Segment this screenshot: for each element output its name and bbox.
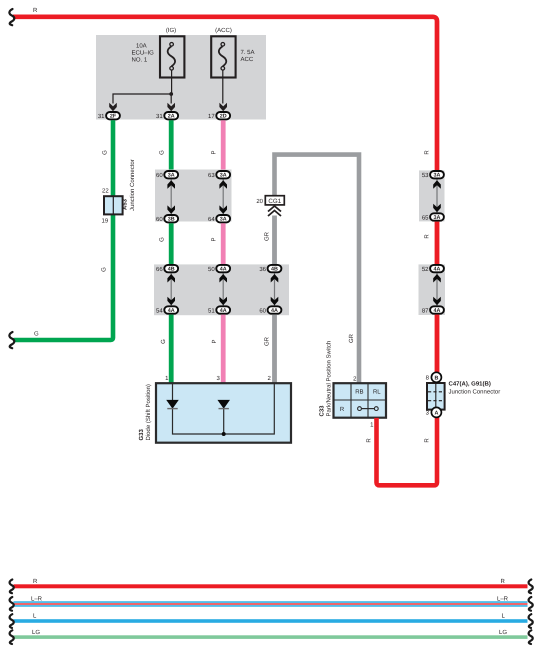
park/neutral position switch C33 box	[334, 383, 387, 418]
svg-text:60: 60	[156, 172, 163, 179]
label L-R bottom left	[31, 595, 43, 602]
svg-text:3A: 3A	[434, 173, 441, 179]
label R (below switch)	[366, 438, 373, 443]
wire P from 3A to connector 4A	[221, 223, 226, 264]
svg-text:CG1: CG1	[268, 198, 281, 205]
svg-text:P: P	[211, 150, 218, 154]
svg-text:G33: G33	[138, 428, 145, 440]
wire R main feed: top horizontal from left break to right vertical	[13, 17, 437, 171]
break symbol left end of wire G	[9, 332, 14, 348]
wire LG bottom bus	[14, 635, 528, 639]
svg-text:LG: LG	[32, 629, 40, 636]
svg-text:R: R	[366, 438, 373, 443]
diode G33 (Shift Position) box	[156, 383, 291, 443]
svg-text:(ACC): (ACC)	[215, 27, 232, 34]
svg-text:GR: GR	[348, 333, 355, 343]
fuse 10A ECU-IG NO.1 rectangle	[160, 36, 184, 77]
label 19 (A53 lower pin)	[102, 218, 109, 225]
svg-text:4A: 4A	[220, 308, 227, 314]
svg-text:31: 31	[98, 113, 105, 120]
junction pin A circle	[426, 407, 442, 417]
svg-text:60: 60	[259, 307, 266, 314]
wire R bottom bus	[14, 584, 528, 588]
label R on top wire	[33, 7, 38, 14]
svg-text:4B: 4B	[168, 267, 175, 273]
label P (between 2D and 3A)	[211, 150, 218, 154]
label L bottom left	[33, 613, 37, 620]
in-line connector 53 (3A) to 65 (3A) red	[422, 171, 444, 221]
svg-text:4A: 4A	[434, 267, 441, 273]
svg-text:L: L	[502, 613, 506, 620]
break symbol right of wire L-R	[529, 597, 533, 611]
svg-text:C33: C33	[318, 405, 325, 417]
svg-text:54: 54	[156, 307, 163, 314]
wire GR from CG1 chevron down to connector 4B	[272, 216, 277, 265]
label LG bottom left	[32, 629, 40, 636]
svg-text:19: 19	[102, 218, 109, 225]
svg-text:64: 64	[208, 216, 215, 223]
wire G from 4A to diode G33 pin 1	[169, 315, 174, 384]
svg-text:3A: 3A	[220, 173, 227, 179]
CG1 shield chevrons	[268, 206, 281, 216]
label 22 (A53 upper pin)	[102, 188, 109, 195]
svg-text:G: G	[34, 331, 39, 338]
svg-text:66: 66	[156, 266, 163, 273]
svg-text:(IG): (IG)	[166, 27, 176, 34]
svg-text:3B: 3B	[168, 217, 175, 223]
wire GR from 4A to diode G33 pin 2	[272, 315, 277, 384]
wire R from C33 pin 1 down, across, up to junction A	[377, 418, 438, 486]
label GR (right leg, above switch)	[348, 333, 355, 343]
svg-text:R: R	[501, 578, 506, 585]
label A53 Junction Connector	[122, 159, 137, 211]
svg-text:Junction Connector: Junction Connector	[449, 389, 501, 396]
in-line connector 36 (4B) to 60 (4A) gray	[259, 265, 281, 314]
label (IG)	[166, 27, 176, 34]
wire G from pin 2A to connector 3A	[169, 120, 174, 171]
svg-text:R: R	[33, 578, 38, 585]
in-line connector 63 (3A) to 64 (3A) pink	[208, 171, 230, 223]
break symbol right of wire R	[529, 580, 533, 594]
svg-text:B: B	[434, 375, 438, 381]
label C47(A), G91(B) Junction Connector	[449, 381, 501, 396]
in-line connector 60 (3A) to 60 (3B) green	[156, 171, 178, 223]
G33 pin 1 label	[165, 375, 169, 382]
label G33 Diode (Shift Position)	[138, 384, 152, 440]
break symbol left of wire LG	[10, 630, 14, 644]
wire L-R bottom bus	[14, 601, 528, 606]
fuse block gray box	[96, 35, 266, 120]
connector pin 31 (2A)	[156, 112, 178, 120]
in-line connector 50 (4A) to 51 (4A) pink	[208, 265, 230, 314]
wire GR overhead run from CG1 column to park/neutral switch column	[275, 155, 360, 383]
svg-text:G: G	[101, 150, 108, 155]
svg-text:2F: 2F	[110, 114, 117, 120]
wire L bottom bus	[14, 619, 528, 623]
in-line connector gray box (4B/4A wide)	[154, 264, 289, 315]
label 7. 5A ACC	[241, 49, 255, 63]
svg-text:R: R	[424, 438, 431, 443]
svg-text:3A: 3A	[168, 173, 175, 179]
label L-R bottom right	[497, 595, 509, 602]
label LG bottom right	[499, 629, 507, 636]
label G (above G33)	[160, 339, 167, 344]
svg-text:4B: 4B	[271, 267, 278, 273]
wire R from 4A down to junction connector B	[435, 315, 440, 373]
wire G from pin 2F down through A53 to left break	[14, 120, 116, 340]
wire P from pin 2D to connector 3A	[221, 120, 226, 171]
G33 pin 3 label	[216, 375, 220, 382]
in-line connector 66 (4B) to 54 (4A) green	[156, 265, 178, 314]
svg-text:R: R	[424, 150, 431, 155]
in-line connector gray box (52/87 4A)	[419, 264, 446, 315]
svg-text:G: G	[159, 237, 166, 242]
label G (vertical, below A53)	[100, 267, 107, 272]
svg-text:7. 5A: 7. 5A	[241, 49, 255, 56]
label P (between 3A and 4A)	[211, 237, 218, 241]
svg-text:2A: 2A	[168, 114, 175, 120]
svg-text:3: 3	[426, 410, 430, 417]
svg-text:LG: LG	[499, 629, 507, 636]
svg-text:GR: GR	[263, 231, 270, 241]
svg-text:10A: 10A	[136, 43, 147, 50]
in-line connector gray box (3A/3B left pair)	[155, 170, 232, 222]
C33 pin 2 label	[353, 376, 357, 383]
wire G from 3B to connector 4B	[169, 223, 174, 264]
svg-text:R: R	[340, 406, 345, 413]
junction connector C47(A),G91(B)	[427, 383, 445, 410]
fuse 7.5A ACC rectangle	[211, 36, 235, 77]
svg-text:31: 31	[156, 113, 163, 120]
break symbol left end of wire R	[9, 9, 14, 25]
svg-text:17: 17	[208, 113, 215, 120]
svg-text:G: G	[100, 267, 107, 272]
svg-text:GR: GR	[263, 336, 270, 346]
svg-text:P: P	[211, 237, 218, 241]
svg-text:63: 63	[208, 172, 215, 179]
break symbol right of wire LG	[529, 630, 533, 644]
svg-text:R: R	[424, 234, 431, 239]
svg-text:1: 1	[370, 422, 374, 429]
svg-text:P: P	[211, 339, 218, 343]
svg-text:Junction Connector: Junction Connector	[129, 159, 136, 211]
svg-text:R: R	[33, 7, 38, 14]
label R bottom right	[501, 578, 506, 585]
svg-text:RL: RL	[373, 389, 381, 396]
svg-text:L–R: L–R	[497, 595, 509, 602]
svg-text:65: 65	[422, 214, 429, 221]
connector CG1 pin 20	[256, 196, 284, 205]
C33 pin 1 label	[370, 422, 374, 429]
label G (between 2A and 3A)	[159, 150, 166, 155]
break symbol right of wire L	[529, 614, 533, 628]
svg-text:2: 2	[353, 376, 357, 383]
fusebox internal wiring from fuse IG to pins 2F and 2A	[109, 70, 175, 111]
fusebox internal wiring from fuse ACC to pin 2D	[219, 70, 227, 111]
svg-text:3A: 3A	[220, 217, 227, 223]
svg-text:60: 60	[156, 216, 163, 223]
svg-text:G: G	[160, 339, 167, 344]
connector pin 31 (2F)	[98, 112, 120, 120]
junction pin B circle	[426, 372, 442, 382]
label R (right leg below junction)	[424, 438, 431, 443]
svg-text:Diode (Shift Position): Diode (Shift Position)	[145, 384, 152, 440]
svg-text:G: G	[159, 150, 166, 155]
label G on horizontal green wire	[34, 331, 39, 338]
label L bottom right	[502, 613, 506, 620]
svg-text:2: 2	[267, 375, 271, 382]
junction connector A53	[104, 196, 123, 214]
in-line connector gray box (53/65 3A)	[419, 170, 445, 221]
svg-text:A53: A53	[122, 198, 129, 210]
svg-text:NO. 1: NO. 1	[132, 57, 148, 64]
in-line connector 52 (4A) to 87 (4A) red	[422, 265, 444, 314]
svg-text:50: 50	[208, 266, 215, 273]
svg-text:RB: RB	[355, 389, 363, 396]
label GR (above 4B)	[263, 231, 270, 241]
label (ACC)	[215, 27, 232, 34]
svg-text:C47(A), G91(B): C47(A), G91(B)	[449, 381, 491, 388]
break symbol left of wire L-R	[10, 597, 14, 611]
svg-text:4A: 4A	[220, 267, 227, 273]
svg-text:L–R: L–R	[31, 595, 43, 602]
svg-text:36: 36	[259, 266, 266, 273]
svg-text:87: 87	[422, 307, 429, 314]
connector pin 17 (2D)	[208, 112, 230, 120]
svg-text:22: 22	[102, 188, 109, 195]
svg-text:53: 53	[422, 172, 429, 179]
wire R between 3A and 4A connectors	[435, 222, 440, 265]
label GR (above G33 pin 2)	[263, 336, 270, 346]
svg-text:1: 1	[165, 375, 169, 382]
svg-text:52: 52	[422, 266, 429, 273]
G33 internal wiring with diodes	[167, 384, 274, 436]
svg-text:20: 20	[256, 198, 263, 205]
label C33 Park/Neutral Position Switch	[318, 341, 332, 417]
svg-text:4A: 4A	[168, 308, 175, 314]
svg-text:2D: 2D	[220, 114, 227, 120]
label G (vertical, above A53)	[101, 150, 108, 155]
svg-text:ACC: ACC	[241, 56, 254, 63]
break symbol left of wire L	[10, 614, 14, 628]
label 10A ECU-IG NO. 1	[132, 43, 155, 64]
svg-text:4A: 4A	[271, 308, 278, 314]
wire P from 4A to diode G33 pin 3	[221, 315, 226, 384]
svg-text:L: L	[33, 613, 37, 620]
svg-text:Park/Neutral Position Switch: Park/Neutral Position Switch	[325, 341, 332, 417]
svg-text:8: 8	[426, 375, 430, 382]
break symbol left of wire R	[10, 580, 14, 594]
svg-text:A: A	[434, 410, 438, 416]
label R (between 3A and 4A)	[424, 234, 431, 239]
label G (between 3B and 4B)	[159, 237, 166, 242]
svg-text:3: 3	[216, 375, 220, 382]
svg-text:51: 51	[208, 307, 215, 314]
label R (right vertical, above 3A)	[424, 150, 431, 155]
G33 pin 2 label	[267, 375, 271, 382]
svg-text:4A: 4A	[434, 308, 441, 314]
label R bottom left	[33, 578, 38, 585]
svg-text:ECU–IG: ECU–IG	[132, 50, 155, 57]
svg-text:3A: 3A	[434, 215, 441, 221]
label P (above G33)	[211, 339, 218, 343]
